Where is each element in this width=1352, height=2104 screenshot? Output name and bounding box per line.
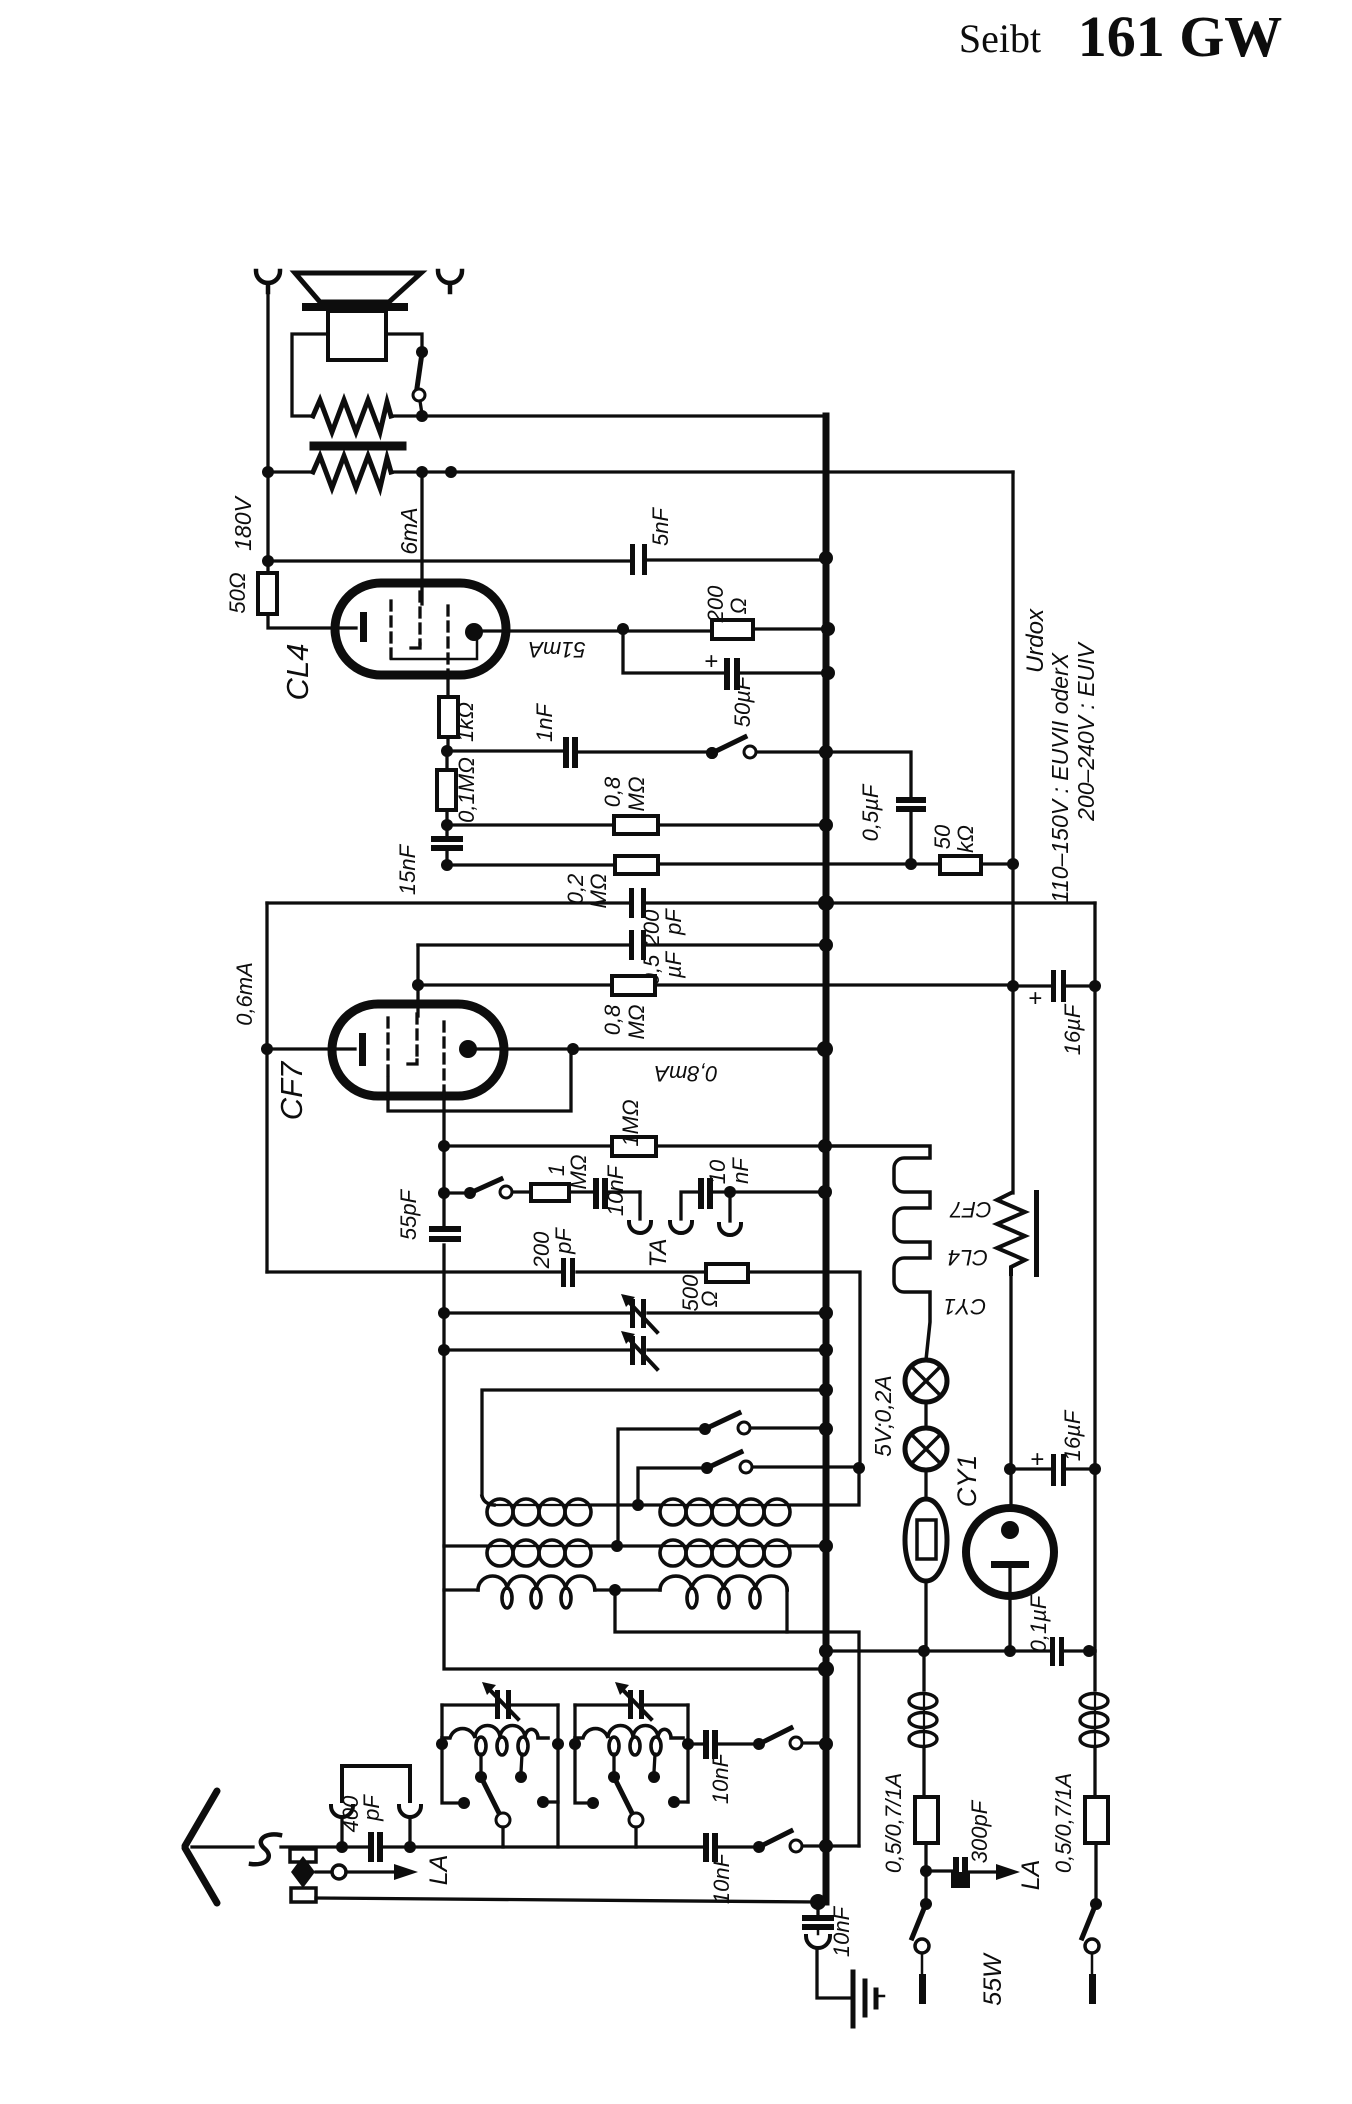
node junction 911,864 [905, 858, 917, 870]
switch S8 [753, 1738, 765, 1750]
svg-text:pF: pF [359, 1794, 384, 1822]
title [959, 4, 1282, 69]
svg-text:50: 50 [930, 824, 955, 849]
svg-text:5V;0,2A: 5V;0,2A [870, 1375, 896, 1456]
resistor 1MΩ [612, 1137, 656, 1156]
wire: urdox to line1651 [924, 1581, 927, 1651]
node junction 826,1429 [819, 1422, 833, 1436]
wire: 0.2MΩ line y864 [447, 864, 1013, 865]
svg-text:0,8: 0,8 [600, 1004, 625, 1035]
terminal fork T1 [256, 271, 280, 292]
capacitor 10nF (osc pad) [703, 1730, 718, 1759]
svg-text:0,6mA: 0,6mA [232, 962, 257, 1026]
node junction 825,1192 [818, 1185, 832, 1199]
wire: 0.5µF branch x911 [826, 752, 911, 864]
svg-text:15nF: 15nF [395, 843, 420, 895]
CF7 grid g3 [442, 1022, 445, 1092]
svg-text:0,8mA: 0,8mA [654, 1061, 718, 1086]
svg-text:16µF: 16µF [1060, 1409, 1085, 1461]
svg-text:50µF: 50µF [730, 675, 755, 727]
wire: row3 right drop [785, 1590, 788, 1632]
node junction 617,1546 [611, 1540, 623, 1552]
svg-text:CF7: CF7 [949, 1197, 991, 1222]
wire: to ground [817, 1950, 849, 1998]
switch S7 (band unit2) [615, 1779, 632, 1813]
lamp LP2 [924, 1402, 927, 1428]
resistor 50Ω [258, 573, 277, 614]
wire: row3 middle [595, 1588, 660, 1591]
svg-text:5nF: 5nF [648, 506, 673, 545]
fuse F2 0,5/0,7/1A [1085, 1797, 1108, 1843]
trimmer capacitor CT1 [495, 1690, 511, 1719]
wire: 0.8MΩ line y985 [418, 983, 1013, 986]
node junction 267,1049 [261, 1043, 273, 1055]
resistor 500Ω [706, 1264, 748, 1282]
wire: unit1 right vertical [556, 1705, 559, 1847]
svg-text:Urdox: Urdox [1022, 608, 1049, 673]
svg-text:200: 200 [703, 585, 728, 623]
labels heater chain [944, 1197, 992, 1319]
node junction 826,825 [819, 818, 833, 832]
wire: tuning cap line y1313 [444, 1311, 826, 1314]
node junction 1013,864 [1007, 858, 1019, 870]
coil L4 (band coil 1) [442, 1726, 548, 1756]
switch S3 (volume) [464, 1187, 476, 1199]
capacitor 300pF branch [926, 1871, 998, 1872]
lamp LP1 [905, 1360, 947, 1402]
band unit 1 trimmer line [442, 1703, 558, 1706]
wire: row1 middle [591, 1503, 661, 1506]
node junction 1013,986 [1007, 980, 1019, 992]
svg-text:1MΩ: 1MΩ [618, 1099, 643, 1146]
wire: line y472 long to right column [268, 470, 1013, 473]
wire: unit1 right stub contact [546, 1800, 558, 1803]
wire: CF7 anode line y1049 [477, 1047, 826, 1050]
svg-text:161 GW: 161 GW [1078, 4, 1283, 69]
wire: line y903 rail to right column [267, 901, 1095, 904]
svg-text:TA: TA [645, 1239, 672, 1268]
CF7 cathode [359, 1033, 366, 1066]
node junction 451,472 [445, 466, 457, 478]
resistor 0,1MΩ [445, 751, 448, 836]
capacitor 16µF (smoothing) [1010, 1467, 1095, 1470]
svg-text:CF7: CF7 [274, 1060, 309, 1120]
node junction 1089,1651 [1083, 1645, 1095, 1657]
svg-text:LA: LA [1017, 1860, 1045, 1891]
svg-text:MΩ: MΩ [566, 1154, 591, 1189]
label Urdox block [1022, 608, 1099, 903]
wire: CF7 cathode lead [267, 1047, 355, 1050]
node junction 826,1350 [819, 1343, 833, 1357]
capacitor 55pF [429, 1226, 461, 1242]
tube CL4 envelope [335, 583, 506, 675]
node junction 826,1846 [819, 1839, 833, 1853]
switch S1 (speaker) [416, 346, 428, 358]
wire: bottom line y1847 [410, 1846, 859, 1847]
LA arrow [346, 1870, 396, 1873]
CF7 grid g1 [386, 1018, 389, 1078]
switch S9 [753, 1841, 765, 1853]
antenna [185, 1791, 217, 1903]
node junction 444,1193 [438, 1187, 450, 1199]
resistor 50kΩ [940, 856, 981, 874]
wire: 0.8MΩ line y825 [447, 823, 826, 826]
variable capacitor C-tune1 [630, 1299, 646, 1328]
svg-text:1nF: 1nF [532, 702, 557, 741]
resistor (output transformer primary) [313, 456, 391, 488]
node junction 1095,986 [1089, 980, 1101, 992]
coil L3a [478, 1576, 595, 1608]
node junction 826,1651 [819, 1644, 833, 1658]
wire: antenna line to 400pF [281, 1845, 410, 1848]
node junction 573,1049 [567, 1043, 579, 1055]
svg-text:10nF: 10nF [708, 1752, 733, 1804]
capacitor 10nF (bottom) [703, 1833, 718, 1862]
resistor (speaker field coil) [313, 400, 391, 432]
svg-text:0,5µF: 0,5µF [858, 783, 883, 841]
svg-text:Ω: Ω [697, 1291, 722, 1308]
svg-text:0,1MΩ: 0,1MΩ [454, 757, 479, 823]
node junction 444,1146 [438, 1140, 450, 1152]
node junction 826,1313 [819, 1306, 833, 1320]
node junction 342,1847 [336, 1841, 348, 1853]
wire: CL4 anode line y630 [483, 629, 826, 631]
wire: CF7 g1 loop below tube [388, 1049, 571, 1111]
svg-text:CY1: CY1 [952, 1455, 982, 1508]
jack TA contact 1 [638, 1192, 641, 1219]
node: unit2 tap A [608, 1771, 620, 1783]
coil L1b [660, 1499, 790, 1525]
node junction 924,1651 [918, 1645, 930, 1657]
coil L2b [660, 1540, 790, 1566]
transformer core bar [314, 442, 402, 451]
wire: speaker right lead [386, 334, 422, 352]
capacitor 10nF (pickup) [593, 1178, 608, 1209]
node: unit1 tap A [475, 1771, 487, 1783]
main bus [823, 416, 830, 1902]
capacitor 200pF (AF coupling) [629, 888, 646, 918]
resistor 0,8MΩ [614, 816, 658, 834]
coil L3b [660, 1576, 787, 1608]
switch S10 (mains left) [920, 1898, 932, 1910]
wire: unit2 right stub contact [677, 1800, 688, 1803]
node junction 447,825 [441, 819, 453, 831]
switch S11 (mains right) [1090, 1898, 1102, 1910]
svg-text:pF: pF [661, 908, 686, 936]
svg-text:nF: nF [728, 1157, 753, 1184]
svg-text:1kΩ: 1kΩ [453, 702, 478, 742]
CL4 grid g3 [446, 606, 449, 672]
jack TA contact 2 [681, 1192, 698, 1219]
node junction 1095,1469 [1089, 1463, 1101, 1475]
capacitor 5nF [630, 544, 647, 575]
svg-text:µF: µF [661, 950, 686, 979]
svg-text:50Ω: 50Ω [225, 572, 250, 613]
wire: row3 left lead [444, 1588, 478, 1591]
wire: 5nF line y560 [268, 560, 826, 561]
node: unit1 tap B [515, 1771, 527, 1783]
node junction 638,1505 [632, 1499, 644, 1511]
capacitor 15nF [431, 836, 463, 851]
svg-text:110–150V : EUVII oderX: 110–150V : EUVII oderX [1047, 651, 1073, 903]
wire: switch line y1468 [638, 1467, 859, 1505]
capacitor 50µF electrolytic [704, 648, 740, 690]
resistor 1MΩ (volume) [531, 1184, 569, 1201]
capacitor 10nF (TA) [698, 1178, 713, 1209]
wire: 50µF branch y673 [623, 630, 830, 673]
resistor 200Ω [712, 620, 753, 639]
trimmer capacitor CT2 [628, 1690, 644, 1719]
node: unit1 spare contact [458, 1797, 470, 1809]
wire: 10nF line y1744 [688, 1743, 826, 1744]
wire: row2 left lead [444, 1544, 490, 1547]
node junction 826,1546 [819, 1539, 833, 1553]
node junction 422,472 [416, 466, 428, 478]
node junction 826,1390 [819, 1383, 833, 1397]
svg-text:0,1µF: 0,1µF [1026, 1594, 1051, 1652]
node junction 688,1744 [682, 1738, 694, 1750]
wire: volume line y1192 [444, 1192, 826, 1193]
wire: line y1390 [482, 1390, 826, 1496]
node junction 422,416 [416, 410, 428, 422]
earth socket [817, 1930, 820, 1934]
svg-text:16µF: 16µF [1060, 1003, 1085, 1055]
svg-text:+: + [704, 648, 718, 675]
ground [853, 1972, 876, 2026]
node junction 444,1350 [438, 1344, 450, 1356]
node junction 268,472 [262, 466, 274, 478]
wire: rail to CL4 cathode [268, 614, 356, 628]
node junction 444,1313 [438, 1307, 450, 1319]
svg-text:55pF: 55pF [396, 1188, 421, 1240]
CF7 anode [459, 1040, 477, 1058]
band unit 2 trimmer line [575, 1703, 688, 1706]
wire: row2 right to bus [789, 1544, 826, 1547]
capacitor 400pF [368, 1832, 383, 1862]
lightning arrester [291, 1856, 315, 1888]
svg-text:6mA: 6mA [396, 507, 422, 554]
resistor 1kΩ [439, 697, 458, 737]
svg-text:Ω: Ω [726, 598, 751, 615]
node junction 418,985 [412, 979, 424, 991]
antenna socket 1 [331, 1806, 353, 1817]
wire: speaker left lead [292, 334, 328, 416]
switch S4 [699, 1423, 711, 1435]
loudspeaker LS [295, 273, 421, 360]
wire: 6mA grid feed [420, 472, 423, 604]
wire: earth line y1900 [316, 1898, 818, 1902]
wire: row3 tap to x859 rail [615, 1590, 859, 1846]
svg-text:CL4: CL4 [280, 644, 315, 701]
Urdox resistor U [924, 1470, 927, 1499]
svg-text:+: + [1028, 985, 1042, 1012]
wire: left rail 0,6mA [265, 903, 268, 1272]
svg-text:Seibt: Seibt [959, 16, 1041, 61]
capacitor 10nF (earth) [816, 1902, 819, 1915]
svg-text:0,8: 0,8 [600, 776, 625, 807]
wire: antenna lead [192, 1845, 253, 1848]
CL4 internal screen connection [391, 641, 477, 659]
variable capacitor C-tune2 [630, 1336, 646, 1365]
svg-text:0,5/0,7/1A: 0,5/0,7/1A [1051, 1773, 1076, 1873]
svg-text:pF: pF [551, 1227, 576, 1255]
capacitor 1nF [563, 737, 578, 768]
node junction 268,561 [262, 555, 274, 567]
node junction 825,1146 [818, 1139, 832, 1153]
node junction 826,1669 [818, 1661, 834, 1677]
rectifier tube CY1 [966, 1508, 1054, 1596]
svg-text:300pF: 300pF [967, 1799, 992, 1863]
antenna break (S) [251, 1834, 280, 1864]
wire: unit2 left vertical [575, 1705, 590, 1803]
svg-text:10nF: 10nF [603, 1164, 628, 1216]
capacitor 0,1µF [1050, 1637, 1064, 1666]
wire: 0.5µF line y945 [418, 943, 826, 946]
wire: tuning cap line y1350 [444, 1348, 826, 1351]
svg-text:kΩ: kΩ [953, 825, 978, 853]
coil L1a (osc) [482, 1496, 592, 1525]
svg-text:10nF: 10nF [709, 1852, 734, 1904]
wire: 1nF line y752 [447, 751, 826, 752]
wire: unit1 taps [481, 1754, 522, 1772]
CF7 grid g2 [415, 1014, 418, 1060]
choke L7 [1080, 1694, 1108, 1753]
wire: row2 middle [591, 1544, 661, 1547]
node: unit2 spare contact [587, 1797, 599, 1809]
choke L6 [909, 1694, 937, 1753]
CL4 cathode [360, 612, 367, 642]
wire: AVC line y1272 [267, 1272, 860, 1468]
node junction 818,1902 [810, 1894, 826, 1910]
heater meander [826, 1146, 930, 1360]
node junction 828,629 [821, 622, 835, 636]
node junction 826,903 [818, 895, 834, 911]
jack TA contact 3 [728, 1192, 731, 1221]
node junction 828,673 [821, 666, 835, 680]
node junction 730,1192 [724, 1186, 736, 1198]
wire: 1MΩ line y1146 [444, 1144, 826, 1147]
node junction 623,629 [617, 623, 629, 635]
wire: switch line y1429 [618, 1428, 826, 1546]
svg-text:10nF: 10nF [829, 1905, 854, 1957]
wire: left 180V rail [266, 288, 269, 573]
node junction 926,1871 [920, 1865, 932, 1877]
switch S5 [701, 1462, 713, 1474]
node junction 826,945 [819, 938, 833, 952]
fuse F1 0,5/0,7/1A [915, 1797, 938, 1843]
antenna socket 2 [399, 1806, 421, 1817]
node junction 447,865 [441, 859, 453, 871]
terminal fork T2 [438, 271, 462, 292]
wire: unit1 left vertical [442, 1705, 461, 1803]
coil L2a [487, 1540, 592, 1566]
svg-text:0,2: 0,2 [563, 874, 588, 905]
svg-text:LA: LA [425, 1855, 453, 1886]
svg-text:CL4: CL4 [948, 1245, 988, 1270]
wire: mains right branch [1093, 1651, 1096, 1690]
node junction 1010,1651 [1004, 1645, 1016, 1657]
node junction 558,1744 [552, 1738, 564, 1750]
node junction 575,1744 [569, 1738, 581, 1750]
right column rail x1013 [1011, 472, 1014, 1193]
coil L5 (band coil 2) [575, 1726, 683, 1756]
node junction 442,1744 [436, 1738, 448, 1750]
node junction 615,1590 [609, 1584, 621, 1596]
resistor 0,2MΩ [615, 856, 658, 874]
capacitor 200pF (antenna) [561, 1258, 575, 1287]
wire: line y416 to bus [391, 414, 826, 417]
wire: mains left branch [922, 1651, 925, 1690]
wire: CF7 grid2 riser x418 [416, 945, 419, 1016]
svg-text:CY1: CY1 [944, 1294, 987, 1319]
node junction 447,751 [441, 745, 453, 757]
switch S6 (band unit1) [482, 1779, 499, 1813]
lightning arrester connector upper [290, 1849, 316, 1862]
wire: unit2 right vertical [686, 1705, 689, 1802]
wire: CF7 g3 drop x444 [444, 1092, 826, 1669]
svg-text:+: + [1030, 1446, 1044, 1473]
lightning arrester connector lower [291, 1888, 316, 1902]
node junction 825,1049 [817, 1041, 833, 1057]
capacitor 0,5µF (screen) [629, 930, 646, 960]
node junction 410,1847 [404, 1841, 416, 1853]
svg-text:MΩ: MΩ [624, 776, 649, 811]
CL4 grid g2 [418, 592, 421, 644]
tube CF7 envelope [332, 1004, 504, 1096]
node: unit2 tap B [648, 1771, 660, 1783]
node LA circle [316, 1870, 333, 1873]
svg-text:200–240V : EUIV: 200–240V : EUIV [1073, 640, 1099, 821]
wire: line y1651 [826, 1649, 1095, 1652]
capacitor 0,5µF [896, 797, 926, 812]
switch S2 (tone) [706, 747, 718, 759]
CL4 anode [465, 623, 483, 641]
wire: unit2 taps [614, 1754, 655, 1772]
node junction 1010,1469 [1004, 1463, 1016, 1475]
resistor (voltage divider with slider) [997, 1193, 1025, 1274]
node junction 826,558 [819, 551, 833, 565]
svg-text:180V: 180V [230, 494, 256, 550]
right column rail x1095 [1093, 903, 1096, 1651]
wire: row1 right to switch line [789, 1468, 859, 1505]
svg-text:51mA: 51mA [528, 637, 585, 662]
node junction 859,1468 [853, 1462, 865, 1474]
wire: CL4 g3 to 1kΩ [446, 672, 449, 751]
wire: divider to CY1 [1009, 1274, 1012, 1523]
svg-text:10: 10 [705, 1159, 730, 1184]
CL4 grid g1 [389, 601, 392, 658]
node junction 826,1744 [819, 1737, 833, 1751]
svg-text:55W: 55W [979, 1952, 1007, 2006]
svg-text:MΩ: MΩ [624, 1004, 649, 1039]
resistor 0,8MΩ (screen feed) [612, 976, 655, 995]
node junction 826,752 [819, 745, 833, 759]
wire: antenna link bridge [342, 1766, 410, 1801]
svg-text:0,5/0,7/1A: 0,5/0,7/1A [881, 1773, 906, 1873]
node junction 712,753 [706, 747, 718, 759]
capacitor 16µF (reservoir) [1013, 984, 1095, 987]
